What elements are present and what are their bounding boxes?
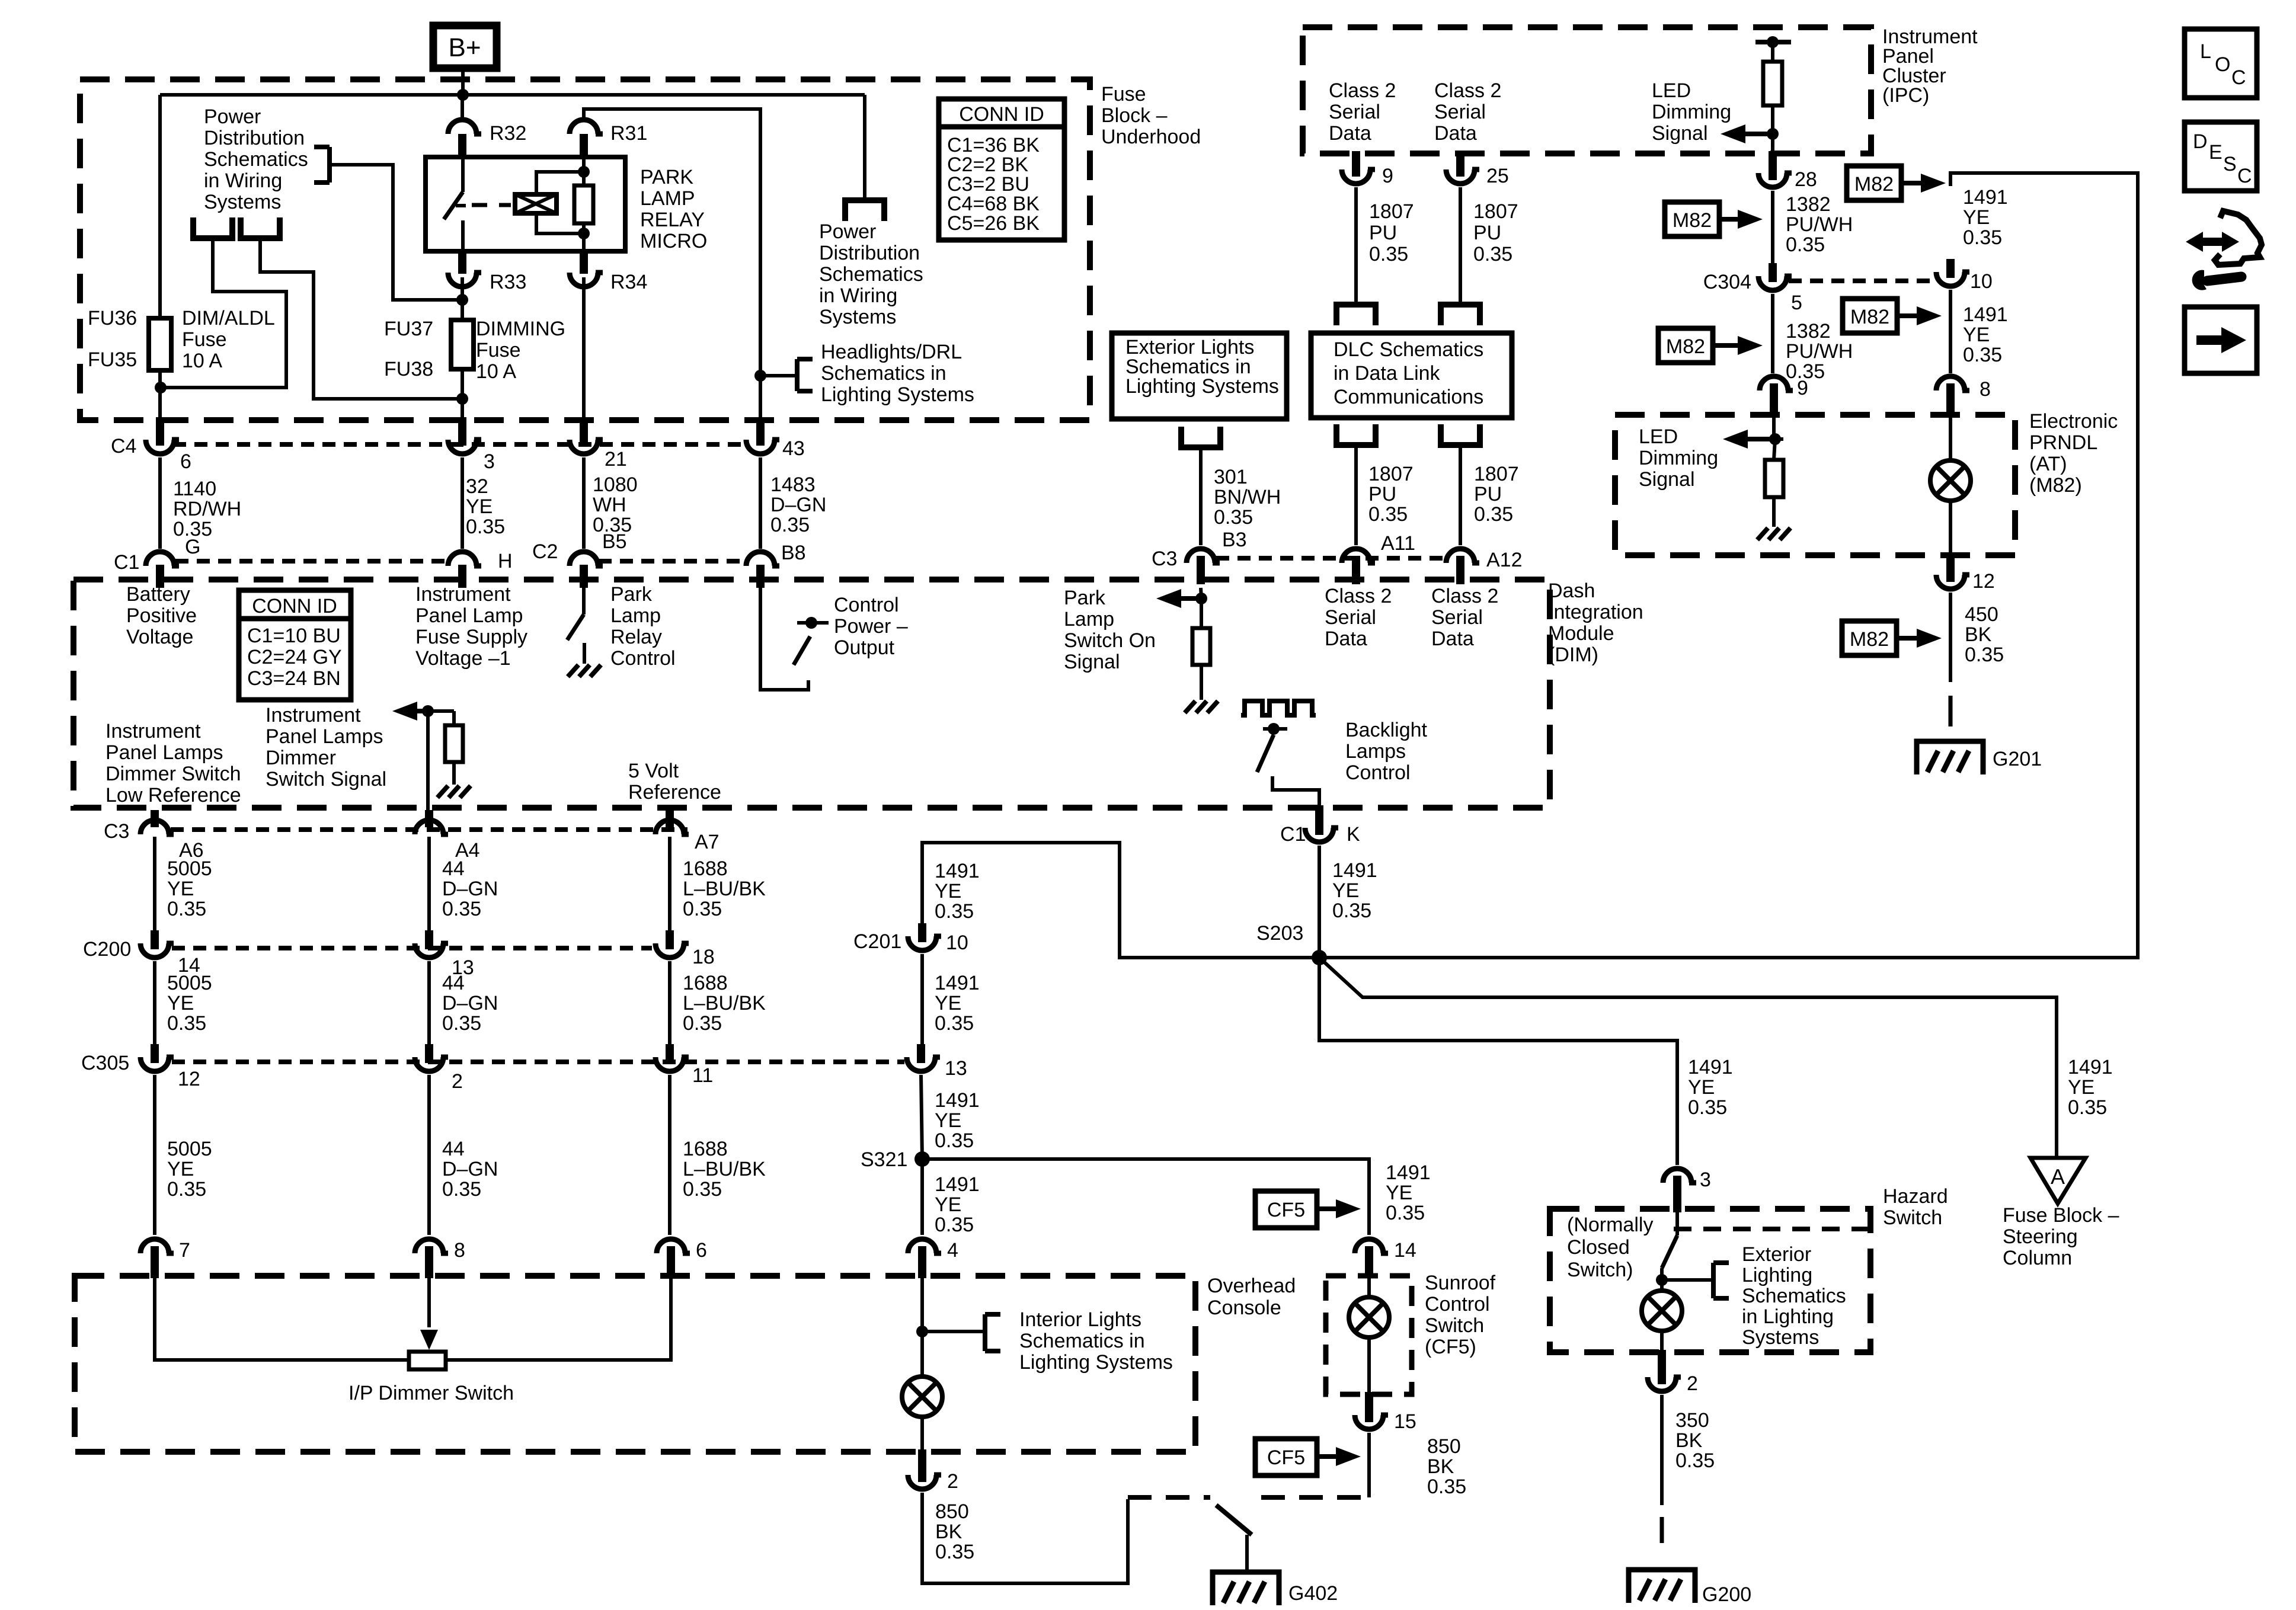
pin 9 connector (IPC) bbox=[1342, 169, 1370, 184]
svg-text:WH: WH bbox=[593, 494, 626, 516]
wire blade to G402 bbox=[1245, 1535, 1249, 1572]
pin A12 connector bbox=[1446, 549, 1475, 563]
svg-text:10 A: 10 A bbox=[182, 350, 222, 372]
svg-text:Lamps: Lamps bbox=[1345, 740, 1406, 763]
relay switch bbox=[461, 157, 465, 192]
svg-text:B3: B3 bbox=[1222, 529, 1247, 551]
pin K connector (DIM C1) bbox=[1305, 828, 1334, 842]
CONN ID table (fuse block) bbox=[939, 99, 1064, 240]
svg-text:Lighting Systems: Lighting Systems bbox=[1019, 1351, 1173, 1374]
fork out of DLC (right) bbox=[1438, 442, 1483, 448]
svg-text:Battery: Battery bbox=[126, 583, 190, 606]
wire S203 to hazard bbox=[1319, 958, 1677, 1165]
wire fork B to FU38 junction bbox=[260, 239, 462, 399]
svg-text:Reference: Reference bbox=[628, 781, 721, 804]
svg-text:Data: Data bbox=[1325, 628, 1367, 650]
wire B+ feed down to FU36 bbox=[158, 95, 162, 318]
svg-text:LED: LED bbox=[1639, 425, 1678, 448]
svg-text:Block –: Block – bbox=[1101, 104, 1168, 127]
lamp courtesy (overhead console) bbox=[902, 1377, 942, 1417]
wire S321 to sunroof bbox=[922, 1159, 1369, 1235]
svg-text:1483: 1483 bbox=[770, 473, 816, 496]
svg-text:YE: YE bbox=[1386, 1182, 1412, 1204]
svg-text:CONN ID: CONN ID bbox=[959, 103, 1044, 126]
wire 1382 PU/WH lower bbox=[1771, 294, 1774, 373]
wire B+ to power-distribution fork bbox=[863, 95, 866, 200]
svg-text:0.35: 0.35 bbox=[935, 1012, 974, 1035]
svg-text:Dimming: Dimming bbox=[1652, 101, 1731, 123]
connector row C305 dashes bbox=[172, 1060, 904, 1064]
svg-text:MICRO: MICRO bbox=[640, 230, 707, 252]
pin 2 connector (hazard) bbox=[1648, 1377, 1676, 1391]
M82 reference 5 bbox=[1842, 621, 1897, 655]
svg-text:0.35: 0.35 bbox=[1675, 1449, 1715, 1472]
svg-text:YE: YE bbox=[167, 1158, 194, 1180]
svg-text:Fuse: Fuse bbox=[1101, 83, 1146, 105]
svg-text:0.35: 0.35 bbox=[1688, 1096, 1727, 1119]
wire S203 to C201 jog bbox=[922, 843, 1319, 958]
svg-text:7: 7 bbox=[179, 1239, 190, 1262]
svg-text:FU38: FU38 bbox=[384, 358, 433, 380]
svg-text:2: 2 bbox=[1687, 1372, 1698, 1395]
svg-text:C200: C200 bbox=[83, 938, 131, 961]
PRNDL dimming resistor bbox=[1765, 460, 1783, 497]
svg-text:L–BU/BK: L–BU/BK bbox=[683, 992, 766, 1014]
svg-text:Signal: Signal bbox=[1064, 651, 1120, 673]
wire fork A to FU35 junction bbox=[161, 239, 286, 388]
wire 1080 WH bbox=[582, 457, 586, 549]
wire 350 BK dashed tail bbox=[1660, 1517, 1664, 1543]
svg-text:0.35: 0.35 bbox=[2068, 1096, 2107, 1119]
svg-text:(Normally: (Normally bbox=[1567, 1214, 1653, 1236]
exterior lights schematics box bbox=[1112, 333, 1287, 419]
wire 1491 C201-13 bbox=[920, 954, 924, 1048]
svg-text:1491: 1491 bbox=[935, 1089, 980, 1112]
svg-text:L: L bbox=[2200, 40, 2211, 63]
svg-text:5: 5 bbox=[1791, 292, 1802, 314]
connector row C304 dashes bbox=[1789, 279, 1936, 283]
svg-text:Communications: Communications bbox=[1334, 386, 1483, 408]
svg-text:C3: C3 bbox=[104, 820, 129, 843]
wire 1807 PU (right) bbox=[1459, 187, 1462, 303]
svg-text:10: 10 bbox=[1970, 270, 1993, 293]
pin B8 connector (C2) bbox=[746, 552, 775, 566]
svg-text:Systems: Systems bbox=[819, 306, 896, 328]
svg-text:YE: YE bbox=[935, 1193, 961, 1216]
pin 3 connector (C4) bbox=[448, 440, 477, 454]
pin 21 connector (C4) bbox=[570, 440, 598, 454]
pin 12 connector bbox=[1936, 575, 1965, 589]
svg-text:1807: 1807 bbox=[1368, 463, 1414, 485]
connector row C1 dashes bbox=[175, 559, 449, 564]
svg-text:R32: R32 bbox=[490, 122, 526, 145]
junction interior lights tap bbox=[916, 1326, 928, 1337]
junction S203 bbox=[1312, 950, 1327, 965]
overhead console box bbox=[75, 1276, 1195, 1452]
sunroof control switch box bbox=[1326, 1276, 1412, 1394]
svg-text:in Data Link: in Data Link bbox=[1334, 362, 1441, 385]
svg-text:C2: C2 bbox=[532, 540, 558, 563]
park lamp relay control switch bbox=[582, 588, 586, 614]
svg-text:0.35: 0.35 bbox=[1332, 900, 1371, 922]
wire S203 to fuse block steering column bbox=[1319, 958, 2057, 1158]
svg-text:1382: 1382 bbox=[1786, 193, 1831, 216]
junction below FU38 bbox=[456, 393, 468, 405]
dashed link sunroof switch bbox=[1128, 1495, 1210, 1500]
fuse FU37/FU38 DIMMING bbox=[451, 320, 474, 369]
svg-text:C2=24 GY: C2=24 GY bbox=[247, 646, 342, 668]
bracket interior lights bbox=[983, 1314, 987, 1351]
ground G402 bbox=[1213, 1572, 1279, 1605]
svg-text:PU/WH: PU/WH bbox=[1786, 340, 1853, 363]
dimmer reference resistor bbox=[452, 711, 456, 725]
svg-text:YE: YE bbox=[935, 992, 961, 1014]
bracket power distribution (left) bbox=[327, 147, 332, 183]
svg-text:12: 12 bbox=[178, 1068, 200, 1090]
junction IPC rail bbox=[1767, 36, 1779, 48]
pin A4 connector bbox=[415, 820, 443, 834]
wire B+ bus bbox=[160, 93, 865, 97]
svg-text:Class 2: Class 2 bbox=[1431, 585, 1498, 607]
svg-text:0.35: 0.35 bbox=[935, 1129, 974, 1152]
svg-text:0.35: 0.35 bbox=[1369, 243, 1408, 265]
svg-text:DIM/ALDL: DIM/ALDL bbox=[182, 307, 275, 329]
DLC schematics box bbox=[1311, 333, 1512, 418]
svg-text:Power: Power bbox=[204, 105, 261, 128]
svg-text:B5: B5 bbox=[602, 530, 627, 553]
svg-text:21: 21 bbox=[605, 448, 627, 470]
wire 301 BN/WH bbox=[1199, 447, 1203, 545]
control power output switch bbox=[760, 588, 808, 690]
svg-text:18: 18 bbox=[692, 946, 715, 968]
icon LOC box bbox=[2185, 29, 2257, 98]
relay coil box bbox=[515, 194, 557, 213]
svg-text:M82: M82 bbox=[1854, 173, 1894, 196]
svg-text:2: 2 bbox=[452, 1070, 463, 1093]
svg-text:C201: C201 bbox=[853, 930, 901, 953]
junction S321 bbox=[914, 1151, 930, 1167]
svg-text:1491: 1491 bbox=[1963, 303, 2008, 326]
junction hazard lamp bbox=[1656, 1274, 1668, 1286]
wire 44 D-GN seg1 bbox=[427, 837, 431, 934]
wire pin7 to pot bbox=[155, 1276, 408, 1360]
svg-text:A7: A7 bbox=[695, 831, 720, 853]
junction headlights/DRL tap bbox=[754, 370, 766, 382]
svg-text:Fuse Supply: Fuse Supply bbox=[415, 626, 527, 648]
svg-text:PU: PU bbox=[1474, 483, 1502, 505]
svg-text:Control: Control bbox=[834, 594, 899, 616]
svg-text:PU: PU bbox=[1369, 222, 1397, 244]
svg-text:CF5: CF5 bbox=[1267, 1199, 1305, 1221]
junction PRNDL dimming bbox=[1769, 433, 1781, 445]
fork out of DLC (left) bbox=[1334, 442, 1379, 448]
wire relay resistor to R34 bbox=[582, 223, 586, 251]
pin 11 connector (C305) bbox=[655, 1057, 684, 1071]
svg-text:C304: C304 bbox=[1703, 271, 1751, 293]
svg-text:0.35: 0.35 bbox=[935, 1541, 974, 1563]
svg-text:D–GN: D–GN bbox=[442, 878, 498, 900]
svg-text:Voltage: Voltage bbox=[126, 626, 193, 648]
svg-text:850: 850 bbox=[1427, 1435, 1461, 1458]
svg-text:1688: 1688 bbox=[683, 972, 728, 994]
svg-text:BK: BK bbox=[935, 1521, 962, 1543]
svg-text:Panel Lamps: Panel Lamps bbox=[266, 725, 383, 748]
svg-text:1688: 1688 bbox=[683, 857, 728, 880]
svg-text:Park: Park bbox=[1064, 587, 1106, 609]
svg-text:1382: 1382 bbox=[1786, 320, 1831, 343]
svg-text:Lighting Systems: Lighting Systems bbox=[821, 383, 974, 406]
svg-text:G201: G201 bbox=[1993, 748, 2042, 770]
hazard switch box bbox=[1550, 1209, 1870, 1352]
svg-text:YE: YE bbox=[1963, 324, 1990, 346]
svg-text:Systems: Systems bbox=[1742, 1326, 1819, 1349]
IPC internal rail bbox=[1755, 40, 1791, 44]
svg-text:Fuse Block –: Fuse Block – bbox=[2003, 1204, 2119, 1227]
svg-text:850: 850 bbox=[935, 1500, 969, 1523]
svg-text:C: C bbox=[2237, 165, 2252, 187]
svg-text:S203: S203 bbox=[1256, 922, 1303, 945]
svg-text:G: G bbox=[185, 536, 200, 558]
wire 1491 YE mid bbox=[1949, 290, 1952, 373]
svg-text:H: H bbox=[498, 550, 513, 572]
relay box PARK LAMP RELAY MICRO bbox=[426, 157, 625, 251]
svg-text:5 Volt: 5 Volt bbox=[628, 760, 679, 782]
svg-text:14: 14 bbox=[1394, 1239, 1416, 1262]
svg-text:YE: YE bbox=[1688, 1076, 1715, 1099]
svg-text:C1: C1 bbox=[1280, 823, 1306, 846]
pin 9 connector (PRNDL) bbox=[1760, 376, 1788, 391]
svg-text:A12: A12 bbox=[1486, 549, 1523, 571]
svg-text:Schematics in: Schematics in bbox=[821, 362, 946, 385]
svg-text:Lamp: Lamp bbox=[610, 604, 661, 627]
svg-text:8: 8 bbox=[1980, 378, 1991, 401]
svg-text:Hazard: Hazard bbox=[1883, 1185, 1948, 1208]
svg-text:R33: R33 bbox=[490, 271, 526, 293]
svg-text:6: 6 bbox=[180, 450, 191, 473]
svg-text:CONN ID: CONN ID bbox=[252, 595, 337, 617]
svg-text:R31: R31 bbox=[610, 122, 647, 145]
wire 1483 D-GN bbox=[759, 457, 762, 549]
svg-text:(DIM): (DIM) bbox=[1548, 644, 1598, 666]
pin 7 connector bbox=[140, 1239, 169, 1253]
svg-text:Signal: Signal bbox=[1652, 122, 1708, 145]
svg-text:Control: Control bbox=[1345, 761, 1411, 784]
pin A11 connector bbox=[1342, 549, 1370, 563]
wire to exterior lighting bracket bbox=[1662, 1278, 1713, 1282]
svg-text:PARK: PARK bbox=[640, 166, 693, 188]
svg-text:Dimmer: Dimmer bbox=[266, 747, 336, 769]
svg-text:YE: YE bbox=[466, 495, 493, 518]
svg-text:Dimmer Switch: Dimmer Switch bbox=[105, 763, 241, 785]
connector row C3 dashes (DIM top) bbox=[1216, 556, 1446, 561]
svg-text:YE: YE bbox=[935, 880, 961, 902]
wire 44 D-GN seg2 bbox=[427, 961, 431, 1048]
svg-text:YE: YE bbox=[1963, 206, 1990, 229]
svg-text:1140: 1140 bbox=[173, 478, 216, 500]
triangle A fuse block steering column bbox=[2030, 1158, 2086, 1204]
svg-text:Voltage –1: Voltage –1 bbox=[415, 647, 511, 670]
pin 6 connector (C4) bbox=[146, 440, 174, 454]
svg-text:Serial: Serial bbox=[1329, 101, 1380, 123]
ground (dimmer reference) bbox=[437, 786, 448, 798]
pin 13 connector (C305) bbox=[907, 1057, 935, 1071]
wire sunroof lamp down bbox=[1367, 1337, 1371, 1392]
wire dimmer signal down bbox=[426, 711, 430, 812]
fork into DLC (right) bbox=[1438, 302, 1483, 308]
svg-text:C3: C3 bbox=[1152, 548, 1177, 570]
svg-text:BK: BK bbox=[1965, 623, 1992, 646]
svg-text:0.35: 0.35 bbox=[770, 514, 810, 536]
svg-text:L–BU/BK: L–BU/BK bbox=[683, 878, 766, 900]
svg-text:Underhood: Underhood bbox=[1101, 126, 1201, 148]
fork out of exterior lights bbox=[1178, 444, 1223, 450]
pin 14 connector bbox=[1355, 1239, 1383, 1253]
PRNDL lamp chain bbox=[1949, 393, 1952, 460]
wire to interior lights bracket bbox=[922, 1330, 985, 1333]
svg-text:Switch: Switch bbox=[1883, 1206, 1942, 1229]
svg-text:5005: 5005 bbox=[167, 857, 212, 880]
M82 reference 1 bbox=[1665, 202, 1719, 236]
svg-text:5005: 5005 bbox=[167, 972, 212, 994]
svg-text:Exterior: Exterior bbox=[1742, 1243, 1811, 1266]
wire pot to pin6 bbox=[446, 1276, 671, 1360]
svg-text:PU: PU bbox=[1368, 483, 1396, 505]
svg-text:in Wiring: in Wiring bbox=[204, 169, 282, 192]
svg-text:E: E bbox=[2209, 141, 2223, 164]
svg-text:15: 15 bbox=[1394, 1410, 1416, 1433]
junction IPC dimming signal bbox=[1767, 128, 1779, 140]
svg-text:Dimming: Dimming bbox=[1639, 447, 1718, 469]
svg-text:Schematics in: Schematics in bbox=[1019, 1330, 1145, 1352]
svg-text:DIMMING: DIMMING bbox=[476, 318, 565, 340]
svg-text:350: 350 bbox=[1675, 1409, 1709, 1432]
svg-text:D–GN: D–GN bbox=[442, 992, 498, 1014]
svg-text:Distribution: Distribution bbox=[204, 127, 305, 149]
svg-text:301: 301 bbox=[1214, 466, 1248, 488]
pin A7 connector bbox=[655, 820, 684, 834]
svg-text:9: 9 bbox=[1382, 165, 1393, 187]
svg-text:1491: 1491 bbox=[2068, 1056, 2113, 1078]
ground G200 bbox=[1629, 1570, 1695, 1603]
connector R34 bbox=[570, 273, 598, 287]
pin 3 connector (hazard) bbox=[1663, 1169, 1691, 1183]
svg-text:(AT): (AT) bbox=[2029, 453, 2067, 475]
svg-text:Fuse: Fuse bbox=[476, 339, 521, 361]
svg-text:Low Reference: Low Reference bbox=[105, 784, 241, 806]
connector row C3 dashes (DIM bottom) bbox=[171, 827, 687, 832]
svg-text:in Lighting: in Lighting bbox=[1742, 1305, 1834, 1328]
svg-text:Data: Data bbox=[1434, 122, 1477, 145]
pin B3 connector bbox=[1187, 549, 1215, 563]
svg-text:Data: Data bbox=[1431, 628, 1474, 650]
lamp hazard switch bbox=[1642, 1291, 1682, 1331]
dash integration module box bbox=[73, 580, 1550, 808]
svg-text:1807: 1807 bbox=[1474, 463, 1519, 485]
lamp PRNDL backlight bbox=[1930, 460, 1971, 501]
fork into DLC (left) bbox=[1334, 302, 1379, 308]
svg-text:Overhead: Overhead bbox=[1207, 1275, 1296, 1297]
svg-text:CF5: CF5 bbox=[1267, 1446, 1305, 1469]
fork to Power Distribution Schematics (right) bbox=[842, 197, 887, 203]
icon forward arrow box bbox=[2185, 307, 2257, 373]
junction under B+ bbox=[457, 89, 469, 101]
wire S321 down to overhead console bbox=[920, 1159, 924, 1235]
pin 43 connector (C4) bbox=[746, 440, 775, 454]
svg-text:M82: M82 bbox=[1673, 209, 1712, 232]
relay coil loop top bbox=[536, 172, 584, 194]
svg-text:28: 28 bbox=[1795, 168, 1817, 191]
icon DESC box bbox=[2185, 122, 2257, 191]
pin 28 connector bbox=[1758, 173, 1787, 187]
wire 5005 YE seg1 bbox=[153, 837, 156, 934]
svg-text:C: C bbox=[2231, 66, 2246, 89]
svg-text:YE: YE bbox=[1332, 879, 1359, 902]
svg-text:4: 4 bbox=[947, 1239, 958, 1262]
lamp sunroof switch bbox=[1349, 1297, 1389, 1337]
svg-text:Panel Lamp: Panel Lamp bbox=[415, 604, 523, 627]
arrow LED dimming (PRNDL) bbox=[1738, 437, 1776, 441]
svg-text:1491: 1491 bbox=[935, 972, 980, 994]
pin G connector (C1) bbox=[146, 552, 174, 566]
wire 43 inside fuse block bbox=[759, 376, 762, 418]
svg-text:1807: 1807 bbox=[1473, 200, 1518, 223]
relay actuation dashed link bbox=[472, 203, 511, 207]
svg-text:Data: Data bbox=[1329, 122, 1371, 145]
svg-text:13: 13 bbox=[945, 1057, 967, 1080]
pin 10 connector (C304) bbox=[1936, 272, 1965, 286]
svg-text:Switch Signal: Switch Signal bbox=[266, 768, 386, 790]
CF5 reference 2 bbox=[1255, 1439, 1317, 1475]
junction dimmer signal bbox=[422, 705, 434, 717]
svg-text:M82: M82 bbox=[1850, 628, 1889, 651]
wire 32 YE bbox=[461, 457, 464, 549]
svg-text:0.35: 0.35 bbox=[935, 1214, 974, 1236]
svg-text:Distribution: Distribution bbox=[819, 242, 920, 264]
svg-text:A: A bbox=[2051, 1164, 2065, 1189]
svg-text:D: D bbox=[2193, 130, 2208, 153]
svg-text:10: 10 bbox=[946, 932, 968, 954]
ground (PRNDL dimming) bbox=[1757, 528, 1768, 540]
svg-text:Power: Power bbox=[819, 220, 876, 243]
svg-text:0.35: 0.35 bbox=[1963, 344, 2002, 366]
svg-text:FU35: FU35 bbox=[88, 348, 137, 371]
svg-text:G200: G200 bbox=[1702, 1583, 1751, 1606]
svg-text:Lighting Systems: Lighting Systems bbox=[1125, 375, 1279, 398]
svg-text:0.35: 0.35 bbox=[1963, 226, 2002, 249]
svg-text:Interior Lights: Interior Lights bbox=[1019, 1308, 1141, 1331]
svg-text:C1=10 BU: C1=10 BU bbox=[247, 625, 341, 647]
wire 350 BK bbox=[1660, 1395, 1664, 1505]
svg-text:C305: C305 bbox=[81, 1052, 129, 1074]
wire 1688 seg2 bbox=[668, 961, 671, 1048]
wire pin8 arrow to pot bbox=[427, 1276, 431, 1327]
svg-text:Instrument: Instrument bbox=[105, 720, 201, 742]
pin 15 connector bbox=[1355, 1415, 1383, 1429]
fuse block - underhood dashed box bbox=[80, 79, 1090, 420]
svg-text:0.35: 0.35 bbox=[442, 898, 481, 920]
svg-text:44: 44 bbox=[442, 972, 465, 994]
svg-text:Switch On: Switch On bbox=[1064, 629, 1156, 652]
svg-text:Lamp: Lamp bbox=[1064, 608, 1114, 630]
wire to headlights bracket bbox=[760, 374, 797, 377]
connector row C4 dashes bbox=[173, 442, 748, 447]
svg-text:Serial: Serial bbox=[1434, 101, 1486, 123]
svg-text:1491: 1491 bbox=[1688, 1056, 1733, 1078]
M82 reference 4 bbox=[1843, 299, 1897, 333]
svg-text:LED: LED bbox=[1652, 79, 1691, 102]
pin 8 connector bbox=[415, 1239, 443, 1253]
junction backlight control bbox=[1268, 723, 1280, 735]
